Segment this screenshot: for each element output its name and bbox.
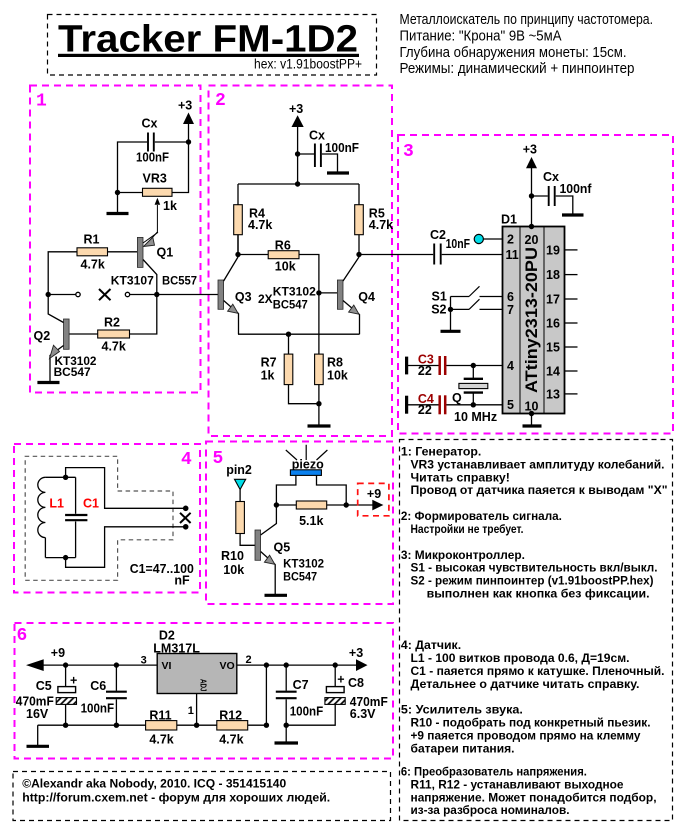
svg-text:19: 19	[546, 243, 560, 257]
svg-text:BC547: BC547	[273, 298, 308, 312]
svg-text:R10: R10	[221, 549, 244, 563]
svg-text:Питание: "Крона" 9В ~5мА: Питание: "Крона" 9В ~5мА	[400, 29, 562, 45]
ground (block3 pin10)	[523, 424, 542, 427]
svg-text:+3: +3	[289, 102, 303, 116]
svg-text:5: 5	[507, 398, 514, 412]
wire Cx right to +3 node	[155, 141, 189, 143]
block 6 frame	[15, 623, 394, 759]
pin 19 number and stub	[546, 243, 578, 257]
svg-text:Читать справку!: Читать справку!	[411, 470, 510, 484]
svg-text:1: 1	[36, 92, 47, 112]
svg-text:100nf: 100nf	[560, 182, 593, 196]
resistor R11 4.7k	[146, 708, 177, 746]
pin 15 number and stub	[546, 340, 578, 354]
svg-text:KT3102: KT3102	[283, 556, 324, 570]
svg-text:L1: L1	[49, 496, 64, 510]
svg-text:2: Формирователь сигнала.: 2: Формирователь сигнала.	[401, 509, 562, 523]
svg-text:S2 - режим пинпоинтер (v1.91bo: S2 - режим пинпоинтер (v1.91boostPP.hex)	[411, 574, 654, 588]
wire C3 left	[407, 365, 439, 367]
svg-text:2: 2	[507, 233, 514, 247]
svg-text:выполнен как кнопка без фиксац: выполнен как кнопка без фиксации.	[427, 587, 650, 601]
terminal dot upper	[183, 506, 189, 512]
resistor R10 10k	[221, 502, 244, 578]
svg-text:ADJ: ADJ	[199, 679, 208, 692]
IC D1 ATtiny2313-20PU	[501, 213, 565, 414]
svg-text:hex: v1.91boostPP+: hex: v1.91boostPP+	[254, 56, 362, 72]
svg-text:Cx: Cx	[309, 129, 325, 143]
title frame	[48, 15, 377, 76]
wire Cx to ground (block3)	[556, 196, 573, 214]
pin 14 number and stub	[546, 364, 578, 378]
node C7 bottom	[284, 723, 289, 728]
svg-text:Q1: Q1	[157, 246, 174, 260]
svg-text:C8: C8	[348, 676, 364, 690]
svg-text:13: 13	[546, 387, 560, 401]
node C8 top	[333, 662, 338, 667]
wire pin2	[484, 238, 503, 240]
node 5.1k right	[344, 502, 349, 507]
node crystal bottom	[471, 402, 476, 407]
svg-text:6: 6	[507, 290, 514, 304]
svg-text:Режимы: динамический + пинпоин: Режимы: динамический + пинпоинтер	[400, 61, 635, 77]
copyright frame	[13, 772, 391, 821]
wire bus left to ground	[37, 725, 39, 745]
wire 5.1k to +9	[327, 504, 373, 506]
wire input rail	[40, 664, 157, 666]
ground (block2 bottom)	[308, 424, 331, 427]
ground (block6 C7)	[275, 741, 299, 744]
svg-text:4.7k: 4.7k	[248, 218, 272, 232]
svg-text:R2: R2	[104, 316, 120, 330]
svg-text:Q3: Q3	[235, 290, 252, 304]
svg-text:5: 5	[213, 449, 224, 469]
wire piezo right leg	[317, 475, 347, 505]
note 6 text	[401, 765, 657, 817]
wire piezo left leg	[276, 475, 296, 505]
wire VR3 right to +3 rail	[172, 142, 189, 193]
wire Cx left to VR3 left rail	[118, 142, 148, 193]
node Q4 base	[316, 290, 321, 295]
svg-text:100nF: 100nF	[325, 141, 359, 155]
svg-text:BC547: BC547	[54, 365, 91, 379]
svg-text:VR3 устанавливает амплитуду ко: VR3 устанавливает амплитуду колебаний.	[411, 457, 665, 471]
wire to block 2 Q3 base	[157, 294, 218, 296]
svg-text:+9: +9	[51, 646, 65, 660]
inductor L1	[38, 477, 64, 557]
svg-text:C2: C2	[430, 228, 446, 242]
sensor shield dashed outline	[25, 456, 173, 580]
svg-text:pin2: pin2	[226, 463, 252, 477]
power +3 (block1)	[178, 99, 194, 125]
svg-text:4.7k: 4.7k	[369, 218, 393, 232]
svg-text:4: 4	[507, 359, 514, 373]
node X symbol (block4)	[180, 513, 191, 523]
node C6 top	[114, 662, 119, 667]
wire output rail	[237, 664, 360, 666]
transistor Q4	[337, 257, 375, 334]
svg-text:L1 - 100 витков провода 0.6, Д: L1 - 100 витков провода 0.6, Д=19см.	[411, 651, 630, 665]
block 2 frame	[209, 86, 393, 437]
power +9 input arrow	[26, 646, 65, 671]
svg-text:10k: 10k	[223, 563, 244, 577]
svg-text:из-за разброса номиналов.: из-за разброса номиналов.	[411, 803, 570, 817]
node C5 top	[63, 662, 68, 667]
resistor R8 10k	[315, 354, 348, 385]
resistor R5 4.7k	[355, 205, 393, 235]
wire R7 bottom to node	[289, 385, 319, 404]
switch S1	[432, 286, 503, 303]
svg-text:BC557: BC557	[162, 273, 197, 287]
svg-text:10k: 10k	[327, 369, 348, 383]
node L1/C1 bottom	[63, 555, 68, 560]
power +3 output arrow	[349, 646, 368, 671]
wire left rail to R1	[48, 252, 77, 295]
node pin20 top	[529, 224, 534, 229]
svg-text:4.7k: 4.7k	[219, 732, 243, 746]
svg-text:3: 3	[403, 142, 414, 162]
svg-text:©Alexandr aka Nobody, 2010. IC: ©Alexandr aka Nobody, 2010. ICQ - 351415…	[22, 777, 286, 791]
resistor 5.1k	[296, 501, 326, 528]
svg-text:Cx: Cx	[543, 170, 559, 184]
svg-text:10 MHz: 10 MHz	[454, 410, 497, 424]
capacitor Cx (block1)	[136, 117, 169, 165]
node C6 bottom	[114, 723, 119, 728]
wire +3 to IC pin20	[531, 168, 533, 227]
open terminal circle right	[125, 292, 129, 296]
title text Tracker FM-1D2	[58, 19, 362, 72]
svg-text:1k: 1k	[163, 199, 177, 213]
svg-text:C1: C1	[83, 496, 99, 510]
node X symbol (block1)	[99, 289, 111, 300]
terminal dot lower	[183, 524, 189, 530]
svg-text:+: +	[70, 674, 77, 688]
wire bottom loop to X terminal	[66, 527, 184, 568]
wire L1/C1 top	[45, 476, 75, 478]
svg-text:6.3V: 6.3V	[350, 707, 376, 721]
svg-text:R11, R12 - устанавливают выход: R11, R12 - устанавливают выходное	[411, 778, 624, 792]
node X left junction	[46, 292, 51, 297]
svg-text:Провод от датчика паяется к вы: Провод от датчика паяется к выводам "X"	[411, 483, 668, 497]
node R7/R8 junction	[316, 401, 321, 406]
svg-text:1k: 1k	[261, 369, 275, 383]
node C5 bottom	[63, 723, 68, 728]
svg-text:4: Датчик.: 4: Датчик.	[401, 638, 461, 652]
wire from block2 to C2	[359, 254, 433, 256]
block 1 frame	[30, 86, 201, 393]
svg-text:5: Усилитель звука.: 5: Усилитель звука.	[401, 703, 523, 717]
svg-text:батареи питания.: батареи питания.	[411, 741, 515, 755]
wire R4 to node	[237, 235, 239, 255]
wire C4 to pin 5	[446, 404, 502, 406]
svg-text:C6: C6	[90, 679, 106, 693]
wire R6 to center column	[299, 255, 319, 293]
ground (S1 S2)	[441, 330, 461, 333]
transistor Q2 KT3102 BC547	[34, 295, 97, 383]
svg-text:17: 17	[546, 292, 560, 306]
resistor R6 10k	[268, 239, 299, 274]
capacitor C8 470mF 6.3V	[325, 665, 388, 721]
svg-text:BC547: BC547	[283, 570, 317, 584]
crystal Q 10 MHz	[452, 366, 497, 425]
ground (block2 Cx)	[327, 171, 349, 174]
node output rail R12	[264, 662, 269, 667]
open terminal circle left	[76, 292, 80, 296]
wire R7 top	[288, 334, 290, 354]
svg-text:+: +	[337, 673, 344, 687]
wire node to 5.1k	[276, 504, 296, 506]
svg-text:Q: Q	[452, 391, 462, 405]
svg-text:16V: 16V	[26, 707, 49, 721]
transistor Q1 KT3107 BC557	[111, 232, 198, 294]
node junction left rail	[115, 190, 120, 195]
svg-text:16: 16	[546, 316, 560, 330]
node Q1 collector junction	[154, 292, 159, 297]
wire left rail to VR3	[118, 192, 143, 194]
resistor R7 1k	[261, 354, 293, 385]
svg-text:6: Преобразователь напряжения.: 6: Преобразователь напряжения.	[401, 765, 587, 779]
svg-text:Настройки не требует.: Настройки не требует.	[411, 522, 524, 536]
wire C4 left	[407, 404, 439, 406]
svg-text:100nF: 100nF	[136, 151, 169, 165]
svg-text:S1: S1	[432, 289, 447, 303]
svg-text:2X: 2X	[258, 292, 273, 306]
capacitor C7 100nF	[276, 665, 324, 742]
power +3 (block3)	[523, 143, 537, 169]
VR3 wiper arrow	[146, 198, 161, 245]
note 2 text	[401, 509, 562, 536]
ground (block3 Cx)	[562, 213, 584, 216]
svg-text:+3: +3	[178, 99, 192, 113]
wire bottom rail (block2)	[238, 333, 360, 335]
wire S1/S2 to ground	[450, 297, 452, 331]
svg-text:nF: nF	[174, 574, 190, 588]
wire +3 to node (block1)	[188, 123, 190, 142]
node pin10 bottom	[529, 411, 534, 416]
svg-text:С1 - паяется прямо к катушке.: С1 - паяется прямо к катушке. Пленочный.	[411, 664, 665, 678]
svg-text:3: 3	[141, 655, 147, 667]
svg-text:1: 1	[188, 705, 194, 717]
power +3 (block2)	[289, 102, 304, 127]
node junction Cx/+3	[186, 139, 191, 144]
block 5 frame	[206, 442, 393, 605]
svg-text:VR3: VR3	[143, 172, 167, 186]
pin 16 number and stub	[546, 316, 578, 330]
node C7 top	[284, 662, 289, 667]
resistor R1 4.7k	[77, 233, 108, 272]
capacitor C2 10nF	[430, 228, 470, 265]
wire open pin to Q1 collector node	[130, 294, 157, 296]
block 3 frame	[398, 135, 673, 434]
svg-text:Q5: Q5	[274, 540, 291, 554]
svg-text:R7: R7	[261, 355, 277, 369]
pin 18 number and stub	[546, 268, 578, 282]
svg-text:S2: S2	[431, 302, 446, 316]
capacitor C1	[65, 477, 99, 557]
label 2X KT3102 BC547	[258, 285, 316, 312]
wire node to Cx (block3)	[532, 195, 548, 197]
node R4/R6	[235, 252, 240, 257]
wire C2 to pin 11	[442, 254, 503, 256]
value label C1=47..100 nF	[130, 562, 194, 587]
wire Cx to ground (block2)	[322, 154, 338, 172]
node S2 junction	[448, 307, 453, 312]
note 4 text	[401, 638, 665, 691]
ground (block5)	[265, 594, 288, 597]
svg-text:10nF: 10nF	[446, 237, 471, 251]
pin 13 number and stub	[546, 387, 578, 401]
capacitor C6 100nF	[81, 665, 127, 725]
regulator D2 LM317L	[141, 629, 252, 718]
svg-text:100nF: 100nF	[81, 702, 115, 716]
node R12 right	[264, 723, 269, 728]
wire top rail	[238, 184, 359, 255]
svg-text:Cx: Cx	[142, 117, 158, 131]
svg-text:Q2: Q2	[34, 329, 51, 343]
svg-text:100nF: 100nF	[290, 704, 324, 718]
svg-text:piezo: piezo	[292, 457, 324, 471]
wire junction to open pin	[48, 294, 75, 296]
capacitor C3 22	[407, 353, 446, 378]
svg-text:+9 паяется проводом прямо на к: +9 паяется проводом прямо на клемму	[411, 729, 641, 743]
wire R12 right to output rail	[265, 665, 267, 725]
note 1 text	[401, 445, 668, 498]
capacitor C5 470mF 16V	[16, 665, 78, 725]
svg-text:R10 - подобрать под конкретный: R10 - подобрать под конкретный пьезик.	[411, 716, 651, 730]
svg-text:11: 11	[506, 248, 519, 262]
node crystal top	[471, 363, 476, 368]
wire C3 to pin 4	[446, 365, 502, 367]
note 5 text	[401, 703, 651, 756]
capacitor C4 22	[407, 392, 446, 417]
capacitor Cx 100nf (block3)	[543, 170, 592, 206]
wire Q2 base to R2	[69, 333, 98, 335]
wire L1/C1 bottom	[45, 557, 75, 559]
svg-text:4.7k: 4.7k	[149, 732, 173, 746]
svg-text:Металлоискатель по принципу ча: Металлоискатель по принципу частотомера.	[400, 12, 654, 28]
wire pin2 to R10	[239, 489, 241, 502]
wire R10 to Q5 base	[240, 534, 255, 546]
node R5/C2	[356, 252, 361, 257]
terminal to pin2 (cyan)	[474, 234, 483, 243]
wire center column R6 to R8	[318, 293, 320, 354]
svg-text:5.1k: 5.1k	[299, 514, 323, 528]
svg-text:1: Генератор.: 1: Генератор.	[401, 445, 481, 459]
pin 17 number and stub	[546, 292, 578, 306]
wire C7 node to C8 bottom	[286, 704, 335, 725]
svg-text:18: 18	[546, 268, 560, 282]
svg-text:VI: VI	[162, 660, 172, 672]
node bottom rail / R7	[286, 332, 291, 337]
svg-text:Глубина обнаружения монеты: 15: Глубина обнаружения монеты: 15см.	[400, 45, 627, 61]
svg-text:2: 2	[215, 91, 226, 111]
switch S2	[431, 299, 502, 316]
svg-text:+9: +9	[367, 487, 381, 501]
wire R8 bottom	[318, 385, 320, 426]
ground (block6 left)	[27, 745, 50, 748]
svg-text:6: 6	[17, 626, 28, 646]
node ADJ junction	[194, 723, 199, 728]
svg-text:+3: +3	[349, 646, 363, 660]
wire Q4 base	[319, 292, 338, 294]
transistor Q3 KT3102	[218, 257, 252, 334]
svg-text:VO: VO	[220, 660, 235, 672]
block 4 frame	[14, 444, 200, 593]
svg-text:3: Микроконтроллер.: 3: Микроконтроллер.	[401, 548, 525, 562]
svg-text:14: 14	[546, 364, 560, 378]
svg-text:7: 7	[507, 303, 514, 317]
svg-text:Детальнее о датчике читать спр: Детальнее о датчике читать справку.	[411, 677, 640, 691]
wire node to Cx	[298, 153, 314, 155]
svg-text:http://forum.cxem.net - форум: http://forum.cxem.net - форум для хороши…	[22, 791, 330, 805]
resistor R2 4.7k	[98, 316, 130, 354]
ground (block1 top)	[107, 193, 129, 214]
potentiometer VR3 1k	[143, 172, 177, 214]
svg-text:20: 20	[525, 233, 539, 247]
wire pin10 to ground	[531, 414, 533, 426]
wire R4 node to R6	[238, 254, 268, 256]
svg-text:C5: C5	[36, 679, 52, 693]
svg-text:4.7k: 4.7k	[81, 258, 105, 272]
svg-text:15: 15	[546, 340, 560, 354]
svg-text:R8: R8	[327, 355, 343, 369]
wire ground bus (block6)	[38, 724, 267, 726]
wire ADJ pin down	[196, 694, 198, 726]
terminal pin2 (cyan triangle)	[226, 463, 252, 490]
resistor R4 4.7k	[234, 205, 273, 235]
svg-text:ATtiny2313-20PU: ATtiny2313-20PU	[522, 247, 541, 393]
node top rail center	[295, 181, 300, 186]
svg-text:4.7k: 4.7k	[102, 340, 126, 354]
svg-text:10k: 10k	[275, 259, 296, 273]
copyright text	[22, 777, 330, 805]
svg-text:KT3107: KT3107	[111, 273, 154, 287]
wire top loop to X terminal	[66, 468, 184, 509]
wire R1 to Q1 base	[108, 251, 138, 253]
wire R5 to node	[358, 235, 360, 255]
transistor Q5 KT3102 BC547	[255, 505, 324, 595]
svg-text:C7: C7	[293, 678, 309, 692]
svg-text:R1: R1	[84, 233, 100, 247]
svg-text:D1: D1	[501, 213, 517, 227]
svg-text:2: 2	[246, 654, 252, 666]
svg-text:+3: +3	[523, 143, 537, 157]
ground (block1 bottom)	[37, 381, 59, 384]
node Cx tap (block3)	[529, 193, 534, 198]
svg-text:4: 4	[181, 450, 192, 470]
note 3 text	[401, 548, 658, 601]
notes frame	[400, 440, 673, 821]
node 5.1k left	[274, 502, 279, 507]
wire +3 down to rail	[297, 126, 299, 184]
power +9 output (red dashed box)	[358, 483, 389, 515]
capacitor Cx (block2)	[309, 129, 359, 168]
node L1/C1 top	[63, 475, 68, 480]
description text	[400, 12, 654, 77]
resistor R12 4.7k	[217, 708, 248, 746]
svg-text:Q4: Q4	[358, 290, 375, 304]
svg-text:S1 - высокая чувствительность: S1 - высокая чувствительность вкл/выкл.	[411, 561, 658, 575]
piezo element	[286, 445, 328, 476]
wire R2 to collector node	[130, 295, 157, 335]
node Cx tap	[295, 151, 300, 156]
